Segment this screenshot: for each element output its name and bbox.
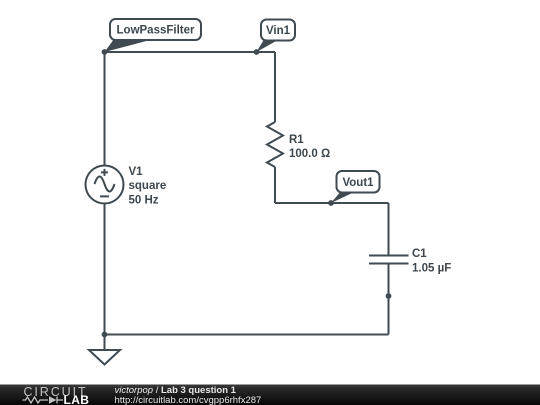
svg-text:square: square xyxy=(129,180,167,192)
svg-text:R1: R1 xyxy=(289,134,304,146)
svg-text:50 Hz: 50 Hz xyxy=(129,194,159,206)
svg-text:C1: C1 xyxy=(412,248,427,260)
svg-text:Vin1: Vin1 xyxy=(266,25,291,37)
svg-text:1.05 µF: 1.05 µF xyxy=(412,262,451,274)
svg-text:http://circuitlab.com/cvgpp6rh: http://circuitlab.com/cvgpp6rhfx287 xyxy=(115,395,262,405)
svg-text:100.0 Ω: 100.0 Ω xyxy=(289,148,330,160)
svg-text:LAB: LAB xyxy=(64,393,90,405)
svg-text:LowPassFilter: LowPassFilter xyxy=(117,25,195,37)
svg-text:Vout1: Vout1 xyxy=(342,177,374,189)
svg-text:V1: V1 xyxy=(129,166,144,178)
